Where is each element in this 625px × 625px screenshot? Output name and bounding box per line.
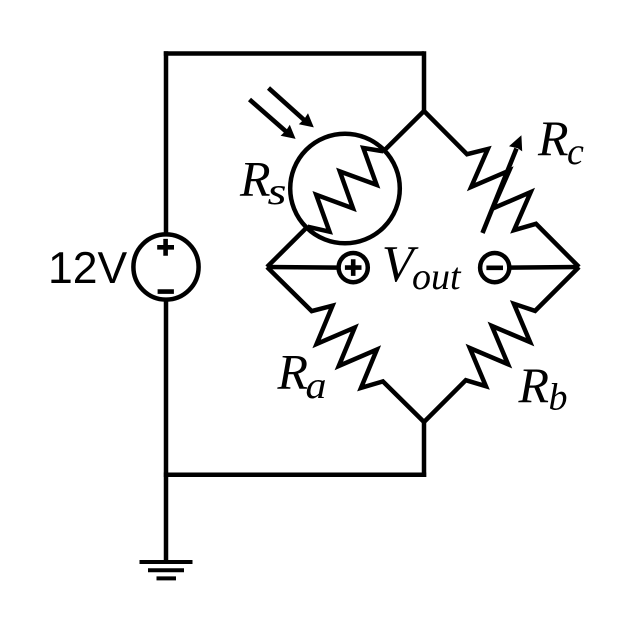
resistor Ra (left node to bottom node) bbox=[267, 267, 424, 422]
Rc variable-resistor arrow bbox=[483, 135, 523, 233]
voltage source V1 circle bbox=[133, 234, 198, 299]
svg-text:R: R bbox=[239, 151, 271, 207]
label Vout bbox=[382, 236, 462, 298]
Vout plus terminal circle bbox=[339, 253, 368, 282]
wire left node to Vout plus terminal bbox=[267, 265, 340, 270]
Vout minus terminal minus sign bbox=[486, 265, 503, 270]
light arrow 2 into Rs (lower) bbox=[250, 100, 296, 139]
ground symbol bbox=[140, 562, 193, 578]
resistor Rc variable (top node to right node) bbox=[424, 111, 579, 267]
Vout plus terminal plus sign bbox=[345, 259, 362, 276]
svg-text:b: b bbox=[549, 377, 568, 419]
resistor Rb (right node to bottom node) bbox=[424, 267, 579, 422]
svg-text:c: c bbox=[567, 131, 584, 173]
label Rs bbox=[239, 151, 287, 214]
svg-text:out: out bbox=[412, 256, 462, 298]
wire source bottom lead down to ground bbox=[164, 300, 169, 563]
light arrow 1 into Rs (upper) bbox=[269, 88, 314, 127]
label Rb bbox=[518, 357, 568, 419]
voltage source plus sign bbox=[157, 239, 174, 256]
voltage source minus sign bbox=[158, 289, 174, 294]
svg-text:12V: 12V bbox=[48, 244, 127, 293]
wire left vertical (source top lead) bbox=[164, 51, 169, 234]
svg-text:R: R bbox=[277, 344, 309, 400]
wire bottom horizontal bbox=[164, 473, 426, 478]
label Ra bbox=[277, 344, 327, 408]
wire top-right vertical into bridge top node bbox=[422, 51, 427, 111]
photoresistor Rs zigzag element bbox=[308, 148, 384, 232]
wire diagonal top node to left node (behind Rs) bbox=[267, 111, 424, 267]
photoresistor Rs body circle bbox=[290, 134, 400, 244]
svg-text:R: R bbox=[537, 110, 569, 166]
wire bottom node stem bbox=[422, 422, 427, 477]
wire Vout minus terminal to right node bbox=[509, 265, 579, 270]
label Rc bbox=[537, 110, 584, 173]
svg-text:a: a bbox=[306, 365, 327, 407]
svg-text:R: R bbox=[518, 357, 550, 413]
Vout minus terminal circle bbox=[480, 253, 509, 282]
svg-text:s: s bbox=[268, 171, 287, 213]
wire top horizontal bbox=[164, 51, 424, 56]
